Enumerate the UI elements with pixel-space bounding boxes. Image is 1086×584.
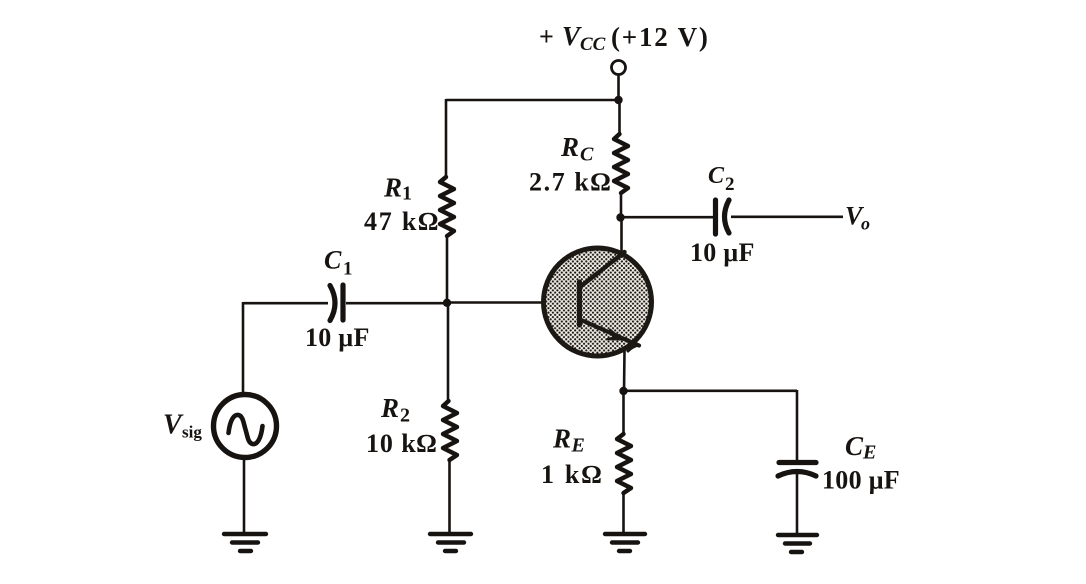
sine symbol inside Vsig	[229, 415, 263, 444]
svg-text:E: E	[571, 435, 585, 457]
svg-text:E: E	[862, 442, 876, 464]
svg-text:2: 2	[725, 174, 735, 195]
capacitor CE	[778, 463, 816, 477]
svg-text:47 kΩ: 47 kΩ	[364, 207, 440, 236]
label RE	[552, 424, 585, 457]
svg-text:2.7 kΩ: 2.7 kΩ	[529, 168, 612, 197]
wire R2 bottom lead	[448, 460, 451, 533]
svg-text:1: 1	[402, 183, 412, 205]
node: base junction dot	[443, 299, 451, 307]
wire Vsig bottom lead	[243, 458, 246, 534]
transistor collector stroke	[580, 252, 625, 287]
node: top junction dot	[614, 96, 622, 104]
wire VCC terminal to top junction	[617, 75, 620, 101]
svg-text:1: 1	[343, 259, 353, 280]
svg-text:V: V	[562, 21, 582, 51]
ground (Vsig)	[224, 534, 266, 551]
svg-text:R: R	[380, 393, 399, 423]
wire R2 top lead	[447, 302, 450, 401]
wire left branch down to Vsig	[242, 302, 245, 395]
wire R1 top lead	[445, 99, 448, 177]
svg-text:1 kΩ: 1 kΩ	[541, 460, 604, 489]
ground (CE)	[778, 535, 817, 552]
svg-text:R: R	[552, 424, 571, 454]
svg-text:C: C	[580, 144, 594, 166]
wire RE top lead	[622, 391, 625, 434]
label R1	[383, 173, 412, 205]
svg-text:R: R	[383, 173, 402, 203]
wire RC top lead	[618, 100, 621, 134]
svg-text:10 kΩ: 10 kΩ	[366, 429, 437, 458]
svg-text:2: 2	[400, 405, 410, 427]
svg-text:C: C	[845, 431, 864, 461]
ground (RE)	[605, 534, 645, 551]
source Vsig	[214, 395, 277, 458]
resistor R1	[440, 177, 454, 236]
wire emitter horizontal to CE	[624, 389, 798, 392]
svg-text:10 μF: 10 μF	[690, 238, 755, 267]
transistor Q1 (dotted circle)	[544, 248, 652, 356]
wire base (junction to transistor)	[447, 301, 544, 304]
label Vsig	[163, 410, 202, 442]
label C1	[324, 246, 353, 280]
transistor base bar	[577, 282, 582, 325]
wire collector horizontal to C2	[621, 216, 714, 219]
label +VCC (+12 V)	[539, 21, 710, 55]
wire top horizontal (junction to R1 branch)	[446, 99, 619, 102]
node: collector junction dot	[616, 213, 624, 221]
svg-text:o: o	[861, 214, 870, 234]
svg-text:10 μF: 10 μF	[305, 323, 370, 352]
transistor emitter stroke with arrow	[580, 320, 639, 352]
wire RE bottom lead	[622, 493, 625, 533]
label Vo	[845, 202, 870, 234]
capacitor C1	[330, 285, 343, 321]
wire collector (junction to transistor top)	[620, 218, 623, 255]
resistor RC	[614, 134, 628, 193]
wire CE top lead	[796, 390, 799, 461]
label R2	[380, 393, 410, 427]
svg-text:C: C	[708, 163, 725, 189]
svg-text:V: V	[163, 410, 184, 441]
svg-text:C: C	[324, 246, 342, 275]
label CE	[845, 431, 876, 464]
wire RC bottom lead	[620, 193, 623, 218]
node: emitter junction dot	[619, 387, 627, 395]
label C2	[708, 163, 735, 195]
wire C1 right lead	[346, 302, 447, 305]
VCC terminal (open circle)	[612, 61, 626, 75]
svg-text:100 μF: 100 μF	[822, 466, 900, 495]
svg-text:(+12 V): (+12 V)	[611, 22, 710, 52]
ground (R2)	[430, 534, 471, 551]
resistor R2	[443, 401, 457, 460]
svg-text:+: +	[539, 22, 554, 51]
capacitor C2	[716, 200, 730, 234]
wire R1 bottom lead	[446, 236, 449, 303]
svg-text:R: R	[560, 132, 579, 162]
wire CE bottom lead	[796, 473, 799, 534]
wire C2 to Vo	[731, 216, 843, 219]
resistor RE	[617, 434, 631, 493]
svg-text:sig: sig	[182, 423, 202, 442]
label RC	[560, 132, 594, 166]
svg-text:CC: CC	[580, 34, 606, 55]
wire emitter (transistor bottom to junction)	[623, 351, 626, 392]
wire C1 left lead	[243, 302, 328, 305]
